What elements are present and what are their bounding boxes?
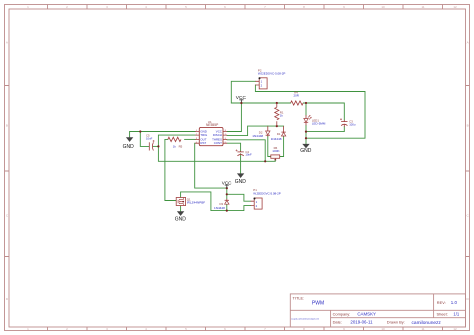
power flag VCC (bottom) <box>222 180 232 188</box>
svg-text:1N4448: 1N4448 <box>271 137 282 141</box>
svg-text:1/1: 1/1 <box>453 312 459 317</box>
wire VCC down to U1 VCC pin <box>227 103 241 132</box>
svg-text:2019-06-11: 2019-06-11 <box>350 320 373 325</box>
resistor R5 <box>168 137 183 148</box>
svg-text:1k: 1k <box>173 144 177 148</box>
svg-text:NE555P: NE555P <box>206 123 219 127</box>
junction Q1 drain / D3 anode / P1 pin2 node <box>226 210 228 212</box>
svg-text:1.0: 1.0 <box>451 300 458 305</box>
svg-text:CONT: CONT <box>214 141 222 145</box>
svg-text:WJ2EDGVC-5.08-2P: WJ2EDGVC-5.08-2P <box>258 72 285 76</box>
svg-text:4: 4 <box>145 5 147 9</box>
svg-text:1: 1 <box>27 5 29 9</box>
wire P2 pin2 long run right side down to LED bottom <box>255 85 365 138</box>
svg-text:IRLZ44NPBF: IRLZ44NPBF <box>187 201 206 205</box>
svg-text:Company:: Company: <box>333 311 351 316</box>
svg-text:GND: GND <box>175 217 187 223</box>
ground GND1 (left, under 555 GND pin wire) <box>123 137 135 150</box>
diode D2 <box>252 126 270 138</box>
svg-text:12: 12 <box>453 327 457 331</box>
svg-text:B: B <box>467 124 469 128</box>
junction LED1 GND node / P2 return <box>305 137 307 139</box>
wire timing node long run to pot wiper <box>158 146 275 161</box>
power flag VCC (top) <box>236 95 247 101</box>
wire D3 bottom to drain node <box>226 205 228 211</box>
wire D1 bottom to pot right <box>280 136 284 156</box>
ground GND4 (under Q1 source) <box>175 211 187 222</box>
svg-text:PWM: PWM <box>312 300 324 306</box>
capacitor C5 <box>146 134 155 151</box>
svg-text:GND: GND <box>123 144 135 150</box>
diode D1 <box>271 126 286 141</box>
connector P2 <box>255 68 285 89</box>
svg-text:20R: 20R <box>294 94 299 98</box>
capacitor C4 <box>236 149 252 156</box>
svg-text:TITLE:: TITLE: <box>293 295 305 300</box>
wire THRES down to wiper node <box>227 140 265 162</box>
svg-text:B: B <box>6 124 8 128</box>
svg-text:1k: 1k <box>280 113 284 117</box>
svg-text:Sheet:: Sheet: <box>437 312 448 317</box>
svg-text:7: 7 <box>264 5 266 9</box>
junction VCC node at rail <box>240 102 242 104</box>
svg-text:Date:: Date: <box>333 320 342 325</box>
junction R1 top on VCC rail <box>276 102 278 104</box>
LED LED1 <box>304 115 326 125</box>
wire C3 bottom to LED bottom <box>306 127 344 132</box>
wire DISCH to diode rail <box>227 126 268 136</box>
diode D3 <box>214 199 229 210</box>
junction D3 cathode / P1 pin1 branch <box>226 193 228 195</box>
wire C4 bottom to GND2 <box>240 154 242 174</box>
svg-text:100u: 100u <box>349 122 356 126</box>
svg-text:1N4448: 1N4448 <box>214 206 225 210</box>
wire VCC1 stem <box>240 100 242 103</box>
svg-text:WJ2EDGVC-5.08-2P: WJ2EDGVC-5.08-2P <box>253 192 280 196</box>
wire C5 left to GND net <box>140 132 149 147</box>
svg-text:5: 5 <box>185 5 187 9</box>
wire VCC2 node to D3 top <box>226 188 228 199</box>
svg-text:D1: D1 <box>277 132 281 136</box>
junction LED1 bottom / C3 return <box>305 131 307 133</box>
svg-text:camilonunezz: camilonunezz <box>412 320 442 326</box>
transistor Q1 IRLZ44NPBF <box>176 197 205 205</box>
wire drain node to P1 pin2 <box>227 206 251 211</box>
svg-text:R5: R5 <box>179 144 183 148</box>
svg-text:REV:: REV: <box>437 300 446 305</box>
wire P2 pin1 to VCC rail <box>231 81 255 103</box>
wire Q1 drain loop <box>181 192 227 211</box>
wire C5 right to node <box>153 145 158 147</box>
svg-text:A: A <box>6 41 8 45</box>
svg-text:GND: GND <box>235 179 247 185</box>
svg-text:LED-5MM: LED-5MM <box>312 121 326 125</box>
svg-text:CAMSKY: CAMSKY <box>357 311 376 316</box>
wire diode top rail <box>268 125 284 127</box>
connector P1 <box>251 188 281 209</box>
svg-text:8: 8 <box>303 5 305 9</box>
svg-text:10: 10 <box>381 5 385 9</box>
svg-text:1N4448: 1N4448 <box>252 134 263 138</box>
junction THRES / pot wiper node <box>264 160 266 162</box>
svg-text:100K: 100K <box>272 149 280 153</box>
wire TRIG to C5 node <box>158 135 195 146</box>
resistor R4 <box>291 91 304 106</box>
potentiometer R6 <box>271 146 281 160</box>
ground GND3 (under LED1) <box>300 144 312 154</box>
svg-text:10nF: 10nF <box>245 153 252 157</box>
svg-text:11: 11 <box>421 327 424 331</box>
svg-text:2: 2 <box>66 5 68 9</box>
wire R4 to C3 top corner <box>303 103 344 120</box>
resistor R1 <box>275 103 284 126</box>
wire U1 GND pin to GND1 <box>130 132 196 137</box>
wire OUT to R5 <box>185 138 196 140</box>
svg-text:C: C <box>6 214 9 218</box>
svg-text:10nF: 10nF <box>146 136 153 140</box>
svg-text:RST: RST <box>200 141 206 145</box>
junction VCC2 / RST / D3 cathode node <box>226 187 228 189</box>
junction R1 bottom / DISCH diode rail <box>276 125 278 127</box>
ground GND2 (under C4) <box>235 173 247 185</box>
svg-text:3: 3 <box>106 5 108 9</box>
svg-text:Drawn By:: Drawn By: <box>387 320 405 325</box>
junction LED1 top on VCC rail <box>305 102 307 104</box>
wire VCC rail to LED1 top <box>305 103 307 115</box>
IC U1 NE555P timer <box>195 120 227 146</box>
svg-text:11: 11 <box>421 5 424 9</box>
wire Q1 source to GND4 <box>180 206 182 212</box>
junction TRIG / C5 right / timing node <box>157 145 159 147</box>
wire CONT to C4 <box>227 143 241 151</box>
svg-text:GND: GND <box>300 148 312 154</box>
capacitor C3 <box>340 118 356 127</box>
svg-text:A: A <box>467 41 469 45</box>
svg-text:6: 6 <box>224 5 226 9</box>
svg-text:9: 9 <box>343 5 345 9</box>
wire RST down to VCC2 node <box>195 143 227 188</box>
svg-text:easyeda.com/camilonunezz/pwm-v: easyeda.com/camilonunezz/pwm-v10 <box>291 318 319 320</box>
svg-text:VCC: VCC <box>236 95 247 101</box>
wire D2 bottom to pot left <box>268 136 271 156</box>
svg-text:D: D <box>6 297 9 301</box>
svg-text:VCC: VCC <box>222 180 232 185</box>
junction C5 left / GND wire <box>139 130 141 132</box>
svg-text:12: 12 <box>453 5 457 9</box>
wire node to P1 pin1 <box>227 194 251 201</box>
wire R5 left down to Q1 gate <box>165 139 176 200</box>
title block <box>290 294 465 327</box>
wire LED1 bottom to GND3 <box>305 125 307 144</box>
wire VCC rail to R4 <box>241 102 290 104</box>
svg-text:10: 10 <box>381 327 385 331</box>
